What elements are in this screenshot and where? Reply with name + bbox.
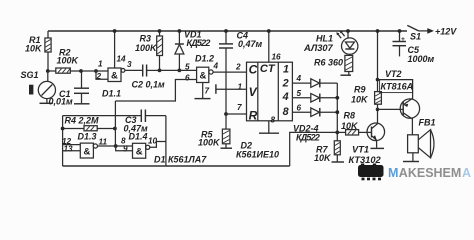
resistor R7 bbox=[314, 141, 344, 163]
node emitter branch bbox=[376, 78, 380, 82]
node rail HL1 bbox=[346, 29, 350, 33]
svg-text:&: & bbox=[84, 147, 91, 158]
wire VD1 node to D1.2 pin5 bbox=[179, 63, 196, 72]
svg-text:КД522: КД522 bbox=[187, 38, 211, 48]
wire D1.2 out to D2 pin C bbox=[213, 63, 246, 73]
op-amp gate D1.4 bbox=[116, 132, 158, 159]
label VD2-4 bbox=[293, 124, 320, 143]
svg-text:1000м: 1000м bbox=[408, 54, 435, 64]
node VD3 cathode bbox=[335, 96, 339, 100]
node R3 bottom bbox=[158, 69, 162, 73]
wire VT2 emitter to rail branch bbox=[378, 80, 413, 100]
svg-text:&: & bbox=[111, 70, 118, 81]
svg-text:6: 6 bbox=[297, 104, 302, 113]
svg-text:0,01м: 0,01м bbox=[49, 96, 74, 106]
diode VD4 bbox=[292, 104, 337, 117]
svg-text:C: C bbox=[249, 63, 258, 77]
svg-text:4: 4 bbox=[296, 74, 302, 83]
microphone SG1 bbox=[21, 70, 56, 103]
capacitor C4 bbox=[219, 31, 263, 115]
speaker BF1 bbox=[403, 118, 436, 162]
node rail R3 bbox=[158, 29, 162, 33]
resistor R9 bbox=[351, 31, 381, 109]
wire top +12V rail bbox=[48, 30, 407, 32]
svg-text:D1.2: D1.2 bbox=[195, 54, 214, 64]
svg-text:CT: CT bbox=[260, 63, 276, 75]
svg-text:100K: 100K bbox=[198, 138, 221, 148]
svg-text:V: V bbox=[249, 85, 258, 99]
svg-text:5: 5 bbox=[185, 63, 190, 72]
svg-text:0,47м: 0,47м bbox=[238, 39, 263, 49]
op-amp gate D1.3 bbox=[62, 132, 116, 159]
resistor R1 bbox=[25, 31, 51, 71]
svg-text:10K: 10K bbox=[314, 153, 332, 163]
svg-text:13: 13 bbox=[64, 145, 74, 154]
resistor R4 bbox=[63, 116, 115, 131]
logo chip icon bbox=[358, 164, 384, 181]
svg-text:C2 0,1м: C2 0,1м bbox=[132, 80, 166, 90]
node D1.3 out bbox=[114, 144, 118, 148]
svg-text:&: & bbox=[200, 71, 207, 82]
svg-text:2: 2 bbox=[235, 63, 241, 72]
diode VD3 bbox=[292, 89, 337, 102]
capacitor C2 bbox=[132, 65, 166, 90]
wire diode common node vertical bbox=[336, 83, 338, 141]
svg-text:A: A bbox=[462, 166, 471, 180]
svg-text:R: R bbox=[249, 108, 258, 122]
svg-text:КТ3102: КТ3102 bbox=[349, 155, 382, 165]
svg-text:D1.3: D1.3 bbox=[78, 132, 97, 142]
node D1.1 input tie bbox=[94, 69, 98, 73]
svg-text:R3: R3 bbox=[140, 34, 152, 44]
resistor R3 bbox=[135, 31, 163, 70]
node VT2 base R9 bottom bbox=[376, 108, 380, 112]
svg-text:R4 2,2M: R4 2,2M bbox=[65, 116, 100, 126]
wire D2 pin16 to rail bbox=[269, 31, 281, 62]
svg-text:&: & bbox=[136, 147, 143, 158]
label D1 bbox=[154, 154, 207, 164]
node rail C4 bbox=[224, 29, 228, 33]
svg-text:AKESHEM: AKESHEM bbox=[399, 166, 462, 180]
svg-text:6: 6 bbox=[185, 74, 190, 83]
svg-text:R6 360: R6 360 bbox=[314, 58, 343, 68]
svg-text:R9: R9 bbox=[354, 85, 366, 95]
node rail VD1 bbox=[178, 29, 182, 33]
diode VD2 bbox=[292, 74, 337, 87]
node rail C5 bbox=[398, 29, 402, 33]
node rail R9 bbox=[376, 29, 380, 33]
resistor R5 bbox=[198, 114, 232, 148]
capacitor C5 bbox=[393, 31, 435, 64]
node VD1 bottom bbox=[178, 69, 182, 73]
op-amp gate D1.2 bbox=[185, 54, 219, 99]
switch S1 bbox=[407, 25, 434, 41]
wire D1.2 pin6 from C3 node bbox=[115, 80, 196, 102]
svg-text:R8: R8 bbox=[344, 111, 356, 121]
svg-text:+: + bbox=[401, 36, 405, 43]
svg-text:К561ИЕ10: К561ИЕ10 bbox=[236, 150, 279, 160]
svg-text:100K: 100K bbox=[57, 56, 80, 66]
svg-text:КТ816А: КТ816А bbox=[381, 82, 414, 92]
node R7 top bbox=[335, 131, 339, 135]
svg-text:2: 2 bbox=[282, 78, 289, 90]
svg-text:16: 16 bbox=[272, 53, 282, 62]
svg-text:3: 3 bbox=[127, 60, 132, 69]
svg-text:100K: 100K bbox=[135, 43, 158, 53]
ground D2 pin8 bbox=[259, 116, 279, 134]
svg-text:14: 14 bbox=[117, 55, 127, 64]
svg-text:11: 11 bbox=[99, 138, 108, 147]
svg-text:FB1: FB1 bbox=[419, 118, 436, 128]
svg-text:S1: S1 bbox=[410, 32, 421, 42]
svg-text:4: 4 bbox=[213, 62, 219, 71]
svg-text:1: 1 bbox=[98, 60, 103, 69]
wire C2 node to VD1 node bbox=[160, 69, 180, 71]
svg-text:КД522: КД522 bbox=[296, 133, 320, 143]
svg-text:M: M bbox=[388, 166, 398, 180]
transistor VT2 bbox=[378, 98, 420, 135]
svg-text:+12V: +12V bbox=[435, 27, 457, 37]
op-amp gate D1.1 bbox=[96, 31, 127, 99]
svg-text:10K: 10K bbox=[351, 95, 369, 105]
wire D2 pin R bbox=[226, 103, 247, 114]
diode VD1 bbox=[175, 30, 210, 71]
resistor R6 bbox=[314, 55, 353, 75]
wire D1.4 out to bottom wire bbox=[150, 116, 166, 166]
node A mic junction bbox=[46, 69, 50, 73]
svg-text:VT2: VT2 bbox=[385, 69, 402, 79]
wire D1.3 out node vertical bbox=[114, 101, 116, 146]
svg-text:7: 7 bbox=[205, 87, 210, 96]
resistor R2 bbox=[48, 48, 81, 74]
logo text MAKESHEMA bbox=[388, 166, 471, 180]
svg-text:SG1: SG1 bbox=[21, 70, 39, 80]
node C4 line R5 bbox=[224, 112, 228, 116]
capacitor C3 bbox=[63, 110, 166, 134]
node VD4 cathode bbox=[335, 110, 339, 114]
svg-text:D1.1: D1.1 bbox=[102, 89, 121, 99]
wire riser to R7 node bbox=[290, 132, 338, 166]
node R4 left bbox=[61, 127, 65, 131]
node rail pin16 bbox=[267, 29, 271, 33]
wire bottom return bbox=[63, 165, 290, 167]
wire mic node to D1.1 inputs bbox=[81, 70, 96, 72]
wire D1.1 out to C2 bbox=[125, 60, 142, 70]
label box КТ816А bbox=[380, 69, 414, 93]
svg-text:7: 7 bbox=[237, 103, 242, 112]
loop left vertical wire bbox=[62, 116, 64, 166]
node C1 top bbox=[79, 69, 83, 73]
resistor R8 bbox=[337, 111, 371, 136]
svg-text:1: 1 bbox=[238, 83, 243, 92]
svg-text:4: 4 bbox=[282, 91, 289, 103]
wire D2 pin V with terminal bar bbox=[216, 83, 247, 94]
capacitor C1 bbox=[49, 71, 90, 106]
svg-text:10K: 10K bbox=[25, 44, 43, 54]
IC D2 counter box bbox=[236, 62, 292, 159]
svg-text:8: 8 bbox=[271, 116, 276, 125]
svg-text:D1.4: D1.4 bbox=[129, 132, 148, 142]
transistor VT1 bbox=[349, 109, 385, 165]
node rail D1 pin14 bbox=[113, 29, 117, 33]
LED HL1 bbox=[303, 30, 358, 54]
svg-text:VT1: VT1 bbox=[352, 144, 369, 154]
svg-text:5: 5 bbox=[297, 89, 302, 98]
svg-text:АЛ307: АЛ307 bbox=[303, 43, 334, 53]
svg-text:1: 1 bbox=[283, 64, 289, 76]
svg-text:8: 8 bbox=[283, 106, 289, 118]
label +12V bbox=[435, 27, 457, 37]
svg-text:D1 К561ЛА7: D1 К561ЛА7 bbox=[154, 154, 207, 164]
node R4 right bbox=[113, 127, 117, 131]
